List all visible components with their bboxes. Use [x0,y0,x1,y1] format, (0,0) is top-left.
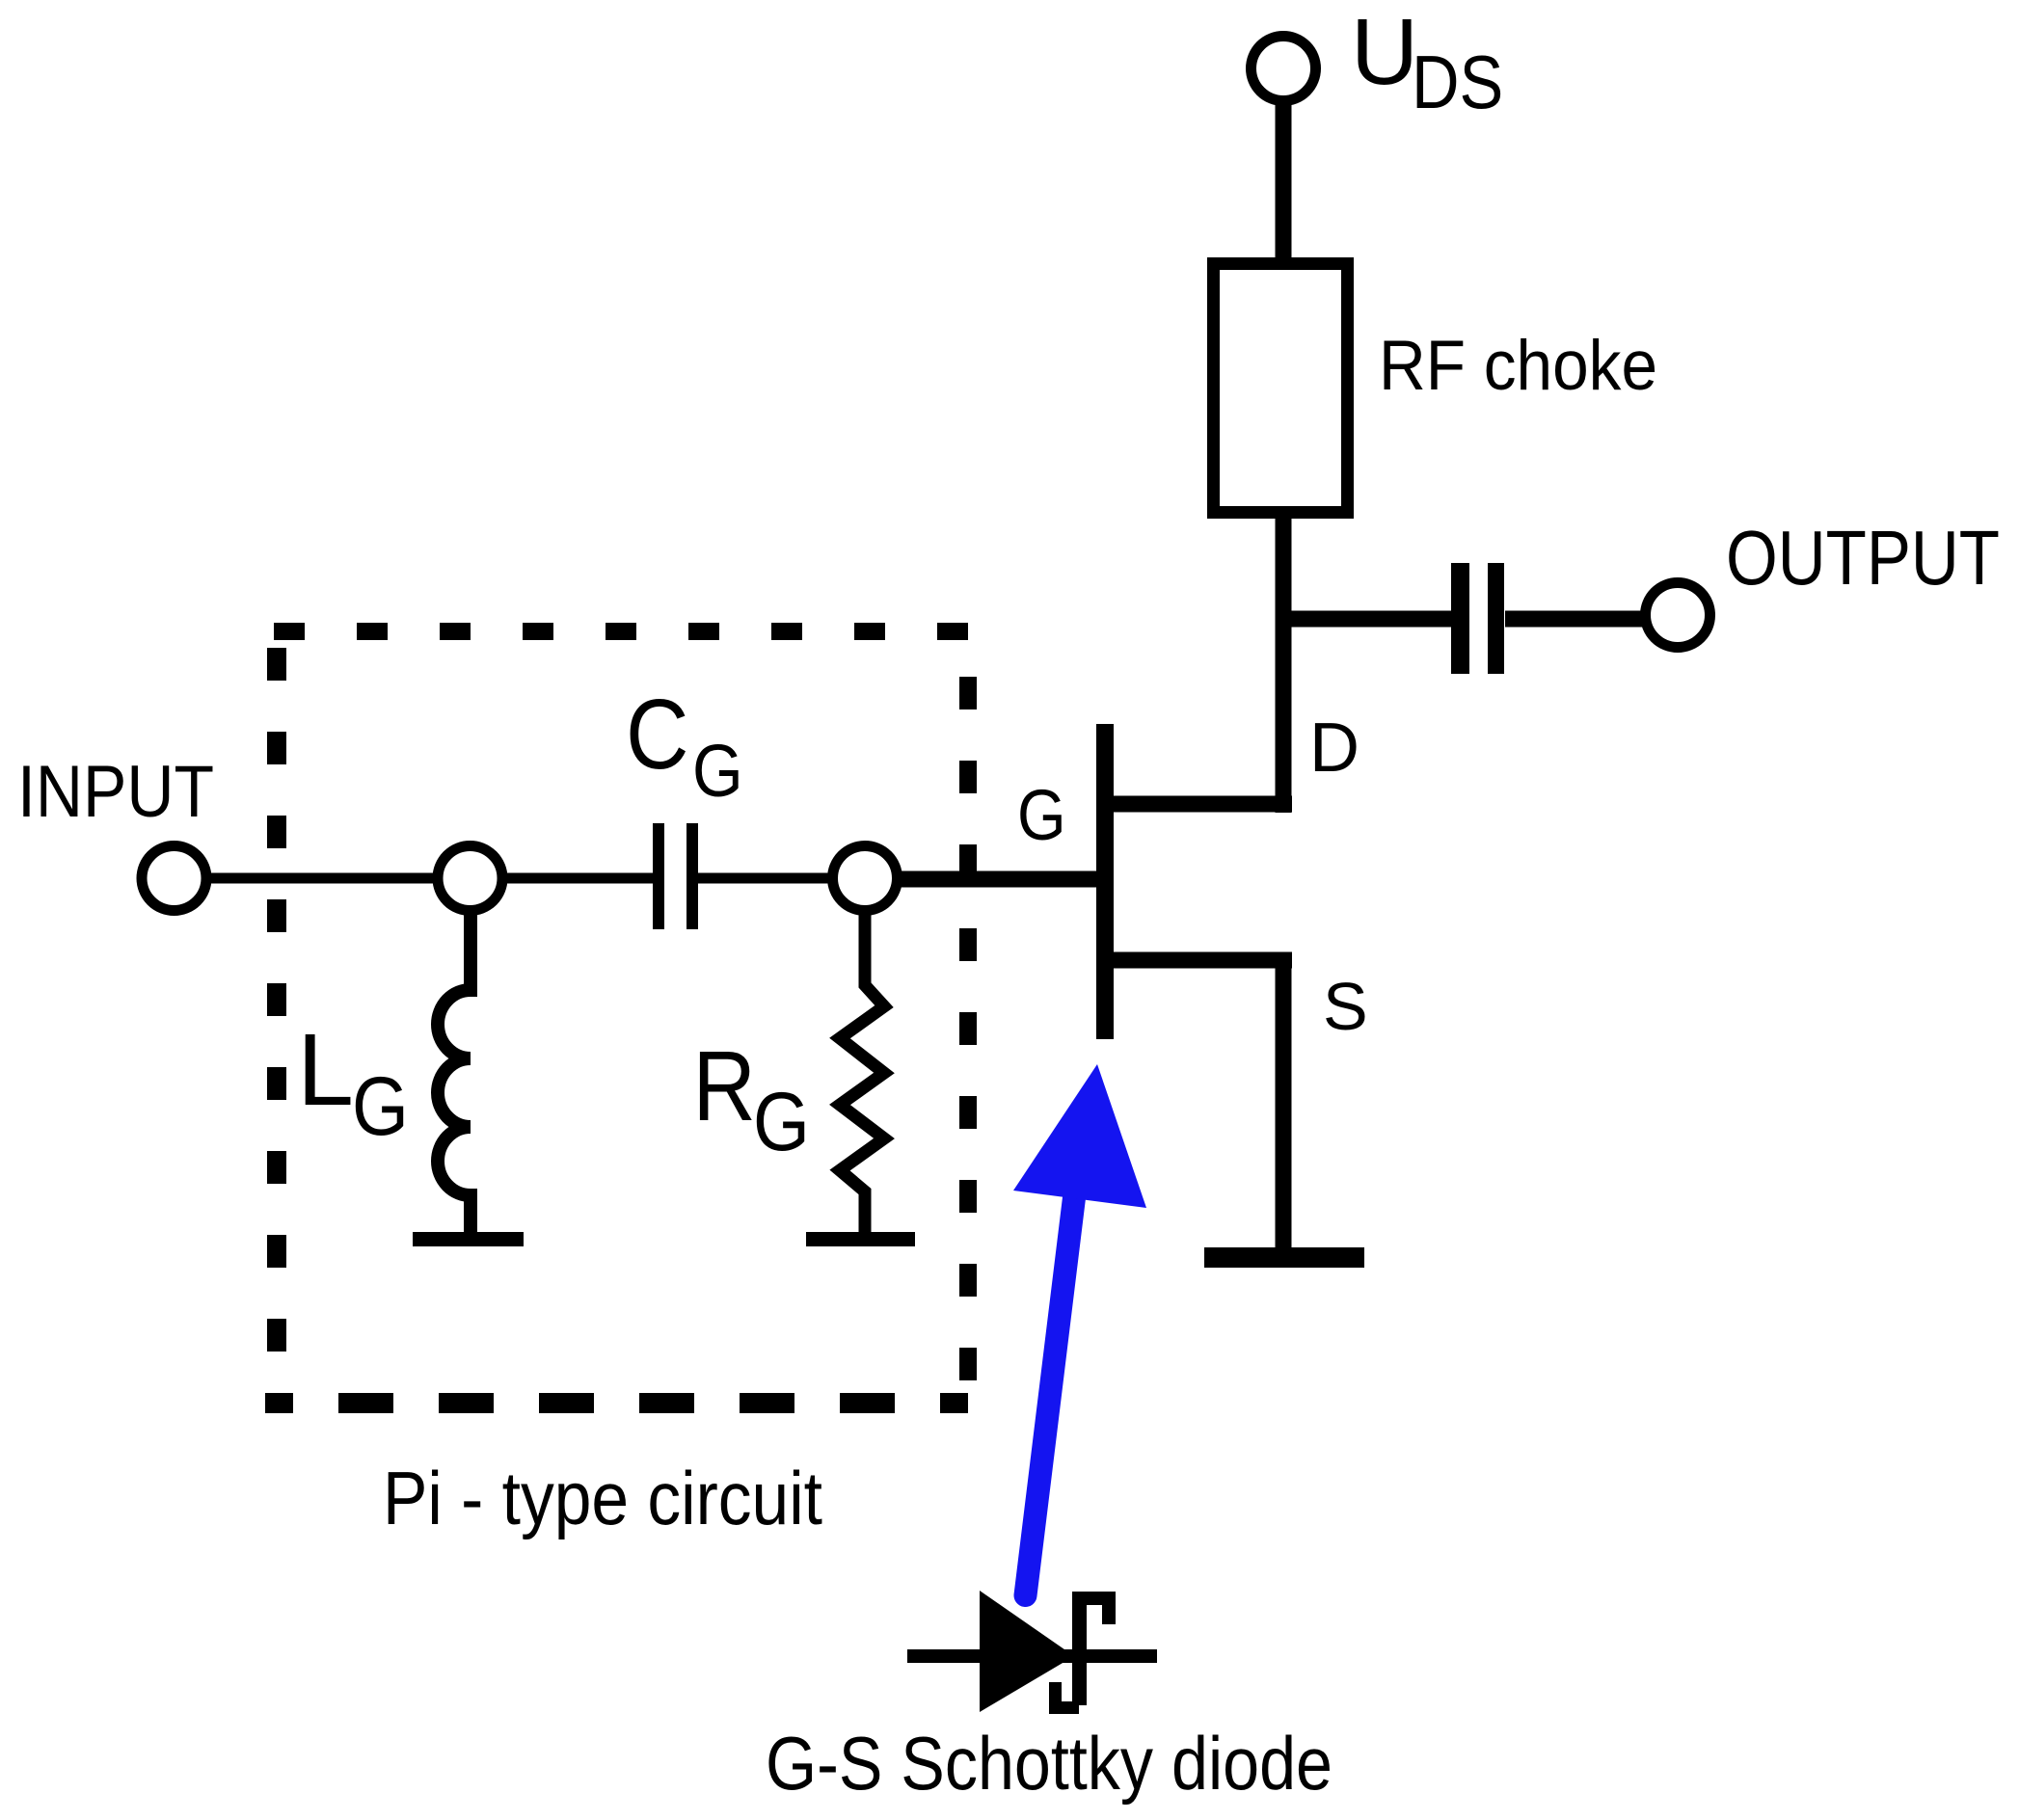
svg-text:Pi - type circuit: Pi - type circuit [383,1456,822,1540]
svg-text:INPUT: INPUT [17,751,214,833]
svg-text:L: L [297,1013,354,1127]
svg-text:C: C [626,679,688,790]
svg-text:G: G [692,730,743,813]
svg-text:G: G [1017,775,1066,855]
svg-text:RF choke: RF choke [1379,327,1657,405]
svg-text:D: D [1309,709,1359,787]
svg-text:S: S [1323,969,1368,1044]
svg-text:R: R [693,1030,756,1142]
svg-text:DS: DS [1412,40,1503,124]
svg-text:G-S Schottky diode: G-S Schottky diode [766,1721,1333,1806]
svg-text:OUTPUT: OUTPUT [1726,515,2000,601]
svg-text:G: G [352,1061,409,1154]
svg-text:U: U [1351,0,1418,104]
svg-text:G: G [753,1077,810,1169]
